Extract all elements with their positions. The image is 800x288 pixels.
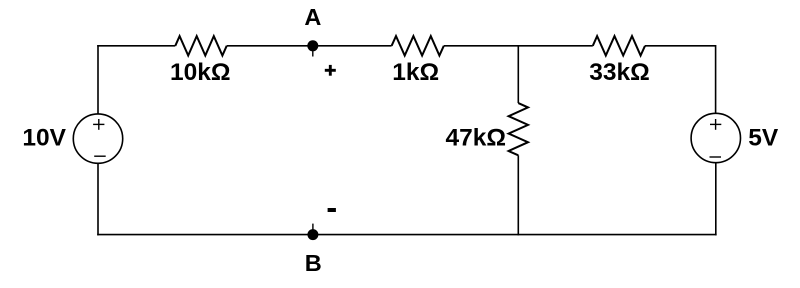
svg-text:10V: 10V: [22, 124, 66, 151]
svg-text:47kΩ: 47kΩ: [445, 125, 506, 152]
voltage source V2 5V: [691, 113, 779, 162]
wire 10k to 1k through node A: [227, 45, 392, 47]
resistor 1kΩ: [392, 36, 444, 86]
resistor 47kΩ: [445, 103, 528, 155]
wire 1k to 33k through junction: [444, 45, 593, 47]
svg-text:B: B: [305, 250, 322, 276]
wire left rail upper: [97, 45, 99, 114]
wire middle branch lower: [517, 155, 519, 235]
svg-text:33kΩ: 33kΩ: [589, 59, 650, 86]
svg-text:10kΩ: 10kΩ: [170, 59, 231, 86]
svg-text:A: A: [304, 4, 321, 30]
label - (polarity at B): [328, 208, 336, 212]
wire 33k to right rail: [645, 45, 716, 47]
wire left rail lower: [97, 163, 99, 235]
label + (polarity at A): [325, 65, 336, 76]
node B: [305, 224, 322, 276]
node A: [304, 4, 321, 57]
resistor 33kΩ: [589, 36, 650, 86]
svg-text:1kΩ: 1kΩ: [392, 59, 439, 86]
resistor 10kΩ: [170, 36, 231, 86]
voltage source V1 10V: [22, 114, 122, 163]
wire bottom rail: [97, 234, 716, 236]
svg-text:5V: 5V: [748, 124, 779, 151]
wire right rail upper: [715, 45, 717, 113]
wire middle branch upper: [517, 45, 519, 103]
wire right rail lower: [715, 163, 717, 236]
wire top-left: corner to resistor 10k: [97, 45, 175, 47]
